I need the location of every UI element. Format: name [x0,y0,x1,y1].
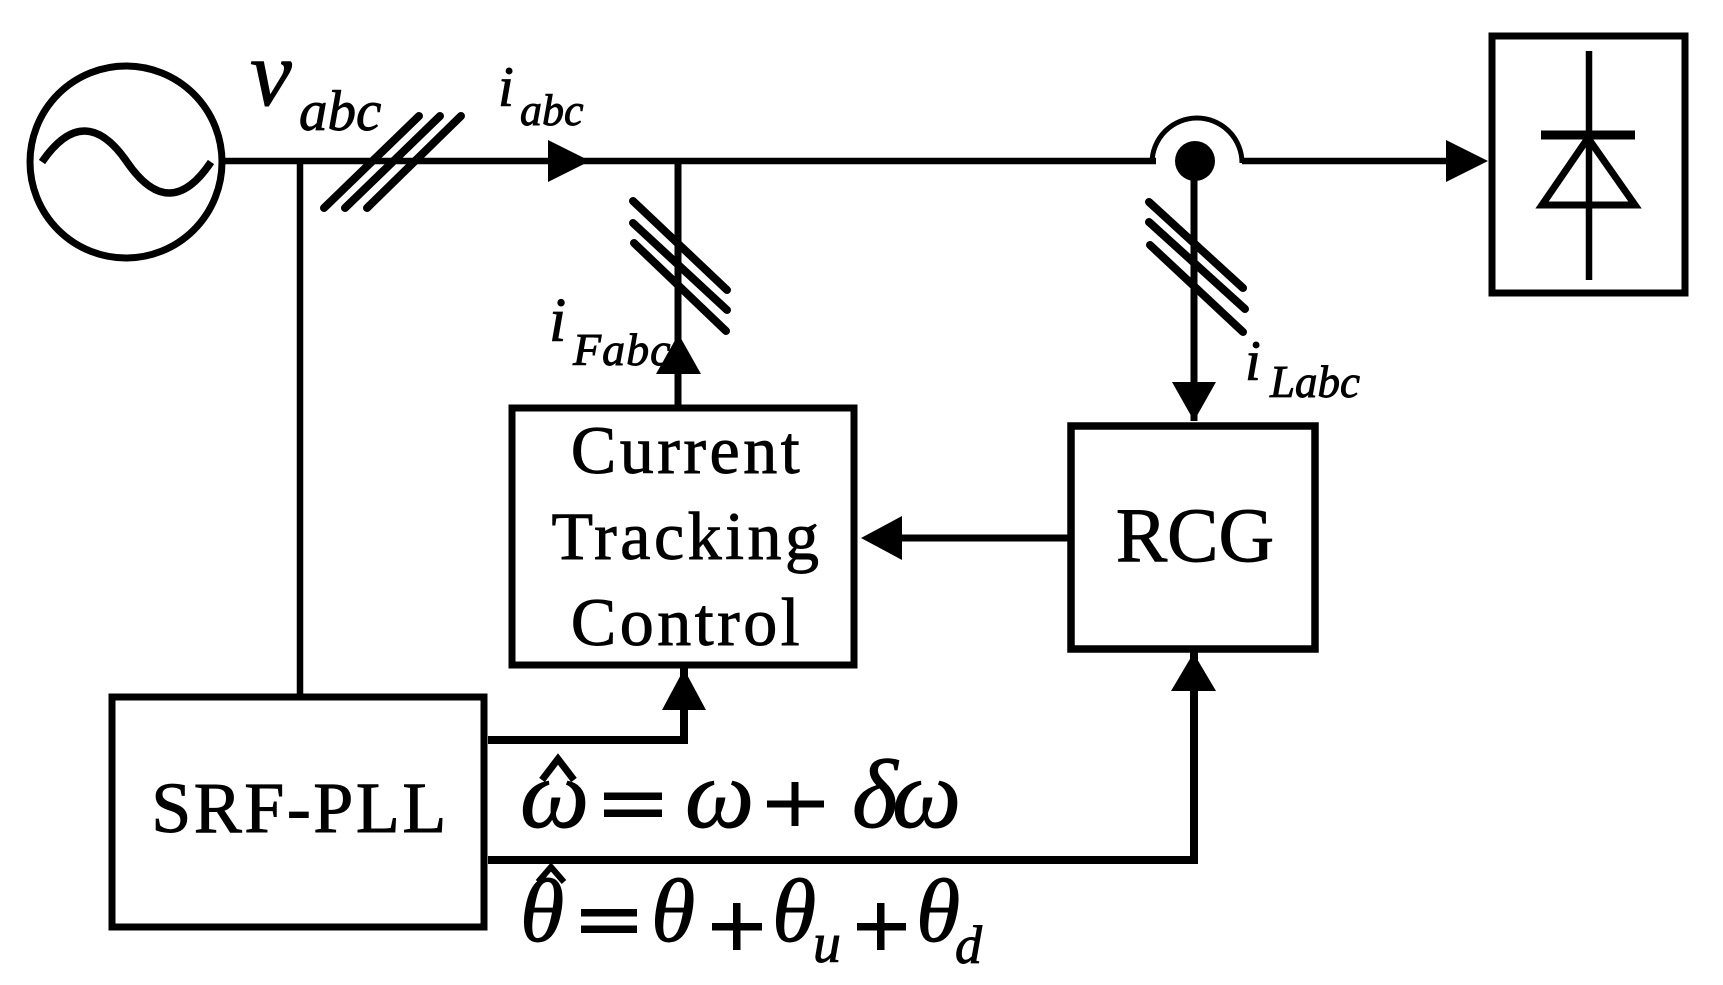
block: SRF-PLL [112,697,484,927]
svg-text:Control: Control [571,584,803,660]
slash marks on load branch [1149,202,1245,332]
svg-text:ω: ω [685,741,754,849]
arrow omega-hat (up into CTC) [662,669,706,710]
label v_abc [250,22,381,143]
svg-text:i: i [549,287,566,355]
block: Current Tracking Control [512,408,854,665]
node junction dot [1175,141,1215,181]
wire: filter branch (i_Fabc) [675,158,682,407]
svg-text:d: d [955,915,983,975]
svg-text:θ: θ [520,862,564,961]
svg-text:Current: Current [571,412,803,488]
wire: main bus right segment [1242,158,1455,165]
arrow RCG to CTC (left) [861,516,902,560]
svg-text:RCG: RCG [1116,492,1274,578]
svg-text:ω: ω [520,741,589,849]
equation theta-hat = theta + theta_u + theta_d [520,862,983,975]
wire: main bus left segment [222,158,1156,165]
svg-text:i: i [498,56,514,119]
arrow on bus (i_abc direction) [548,140,590,182]
3-phase slash marks on bus [324,116,461,208]
block: RCG [1071,426,1315,649]
svg-text:abc: abc [299,80,381,143]
wire: RCG to CTC [896,535,1070,542]
arc over node [1152,118,1242,163]
arrow theta-hat (up into RCG) [1171,653,1216,691]
svg-text:ω: ω [892,741,961,849]
slash marks on filter branch [633,201,727,331]
svg-text:v: v [250,22,292,126]
arrow into rectifier [1446,140,1488,182]
rectifier block [1492,36,1685,293]
equation omega-hat = omega + delta-omega [520,741,961,849]
svg-text:Fabc: Fabc [572,324,672,375]
wire: omega-hat output (SRF-PLL to CTC) [488,668,684,740]
wire: load branch (i_Labc) [1191,175,1198,421]
wire: theta-hat output (SRF-PLL to RCG) [488,651,1194,860]
svg-text:θ: θ [651,862,695,961]
svg-text:i: i [1245,330,1261,393]
diode symbol inside rectifier [1541,51,1635,280]
svg-text:Tracking: Tracking [551,498,822,574]
svg-text:θ: θ [916,862,960,961]
AC source VS circle [30,66,222,258]
label i_Labc [1245,330,1360,407]
label i_Fabc [549,287,672,375]
svg-text:u: u [813,913,841,975]
svg-text:θ: θ [772,862,816,961]
label i_abc [498,56,584,135]
wire: branch down to SRF-PLL [297,158,304,697]
arrow i_Fabc (up) [656,334,701,374]
svg-text:Labc: Labc [1269,357,1360,407]
svg-text:SRF-PLL: SRF-PLL [151,768,449,848]
arrow i_Labc (down) [1172,382,1216,421]
svg-text:abc: abc [520,86,584,135]
